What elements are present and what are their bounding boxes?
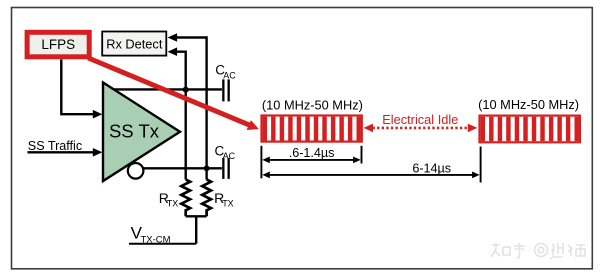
svg-text:Electrical Idle: Electrical Idle [382,112,458,127]
svg-text:TX-CM: TX-CM [141,235,171,246]
svg-text:(10 MHz-50 MHz): (10 MHz-50 MHz) [262,98,363,113]
svg-text:Rx Detect: Rx Detect [106,36,163,51]
svg-text:.6-1.4µs: .6-1.4µs [289,146,335,160]
svg-text:SS Tx: SS Tx [109,121,160,142]
svg-text:AC: AC [223,151,236,161]
svg-text:(10 MHz-50 MHz): (10 MHz-50 MHz) [478,97,579,112]
svg-text:6-14µs: 6-14µs [412,162,451,176]
svg-text:AC: AC [223,71,236,81]
svg-text:LFPS: LFPS [41,37,75,52]
svg-text:SS Traffic: SS Traffic [28,139,82,153]
svg-text:TX: TX [222,199,234,209]
svg-text:TX: TX [167,199,179,209]
